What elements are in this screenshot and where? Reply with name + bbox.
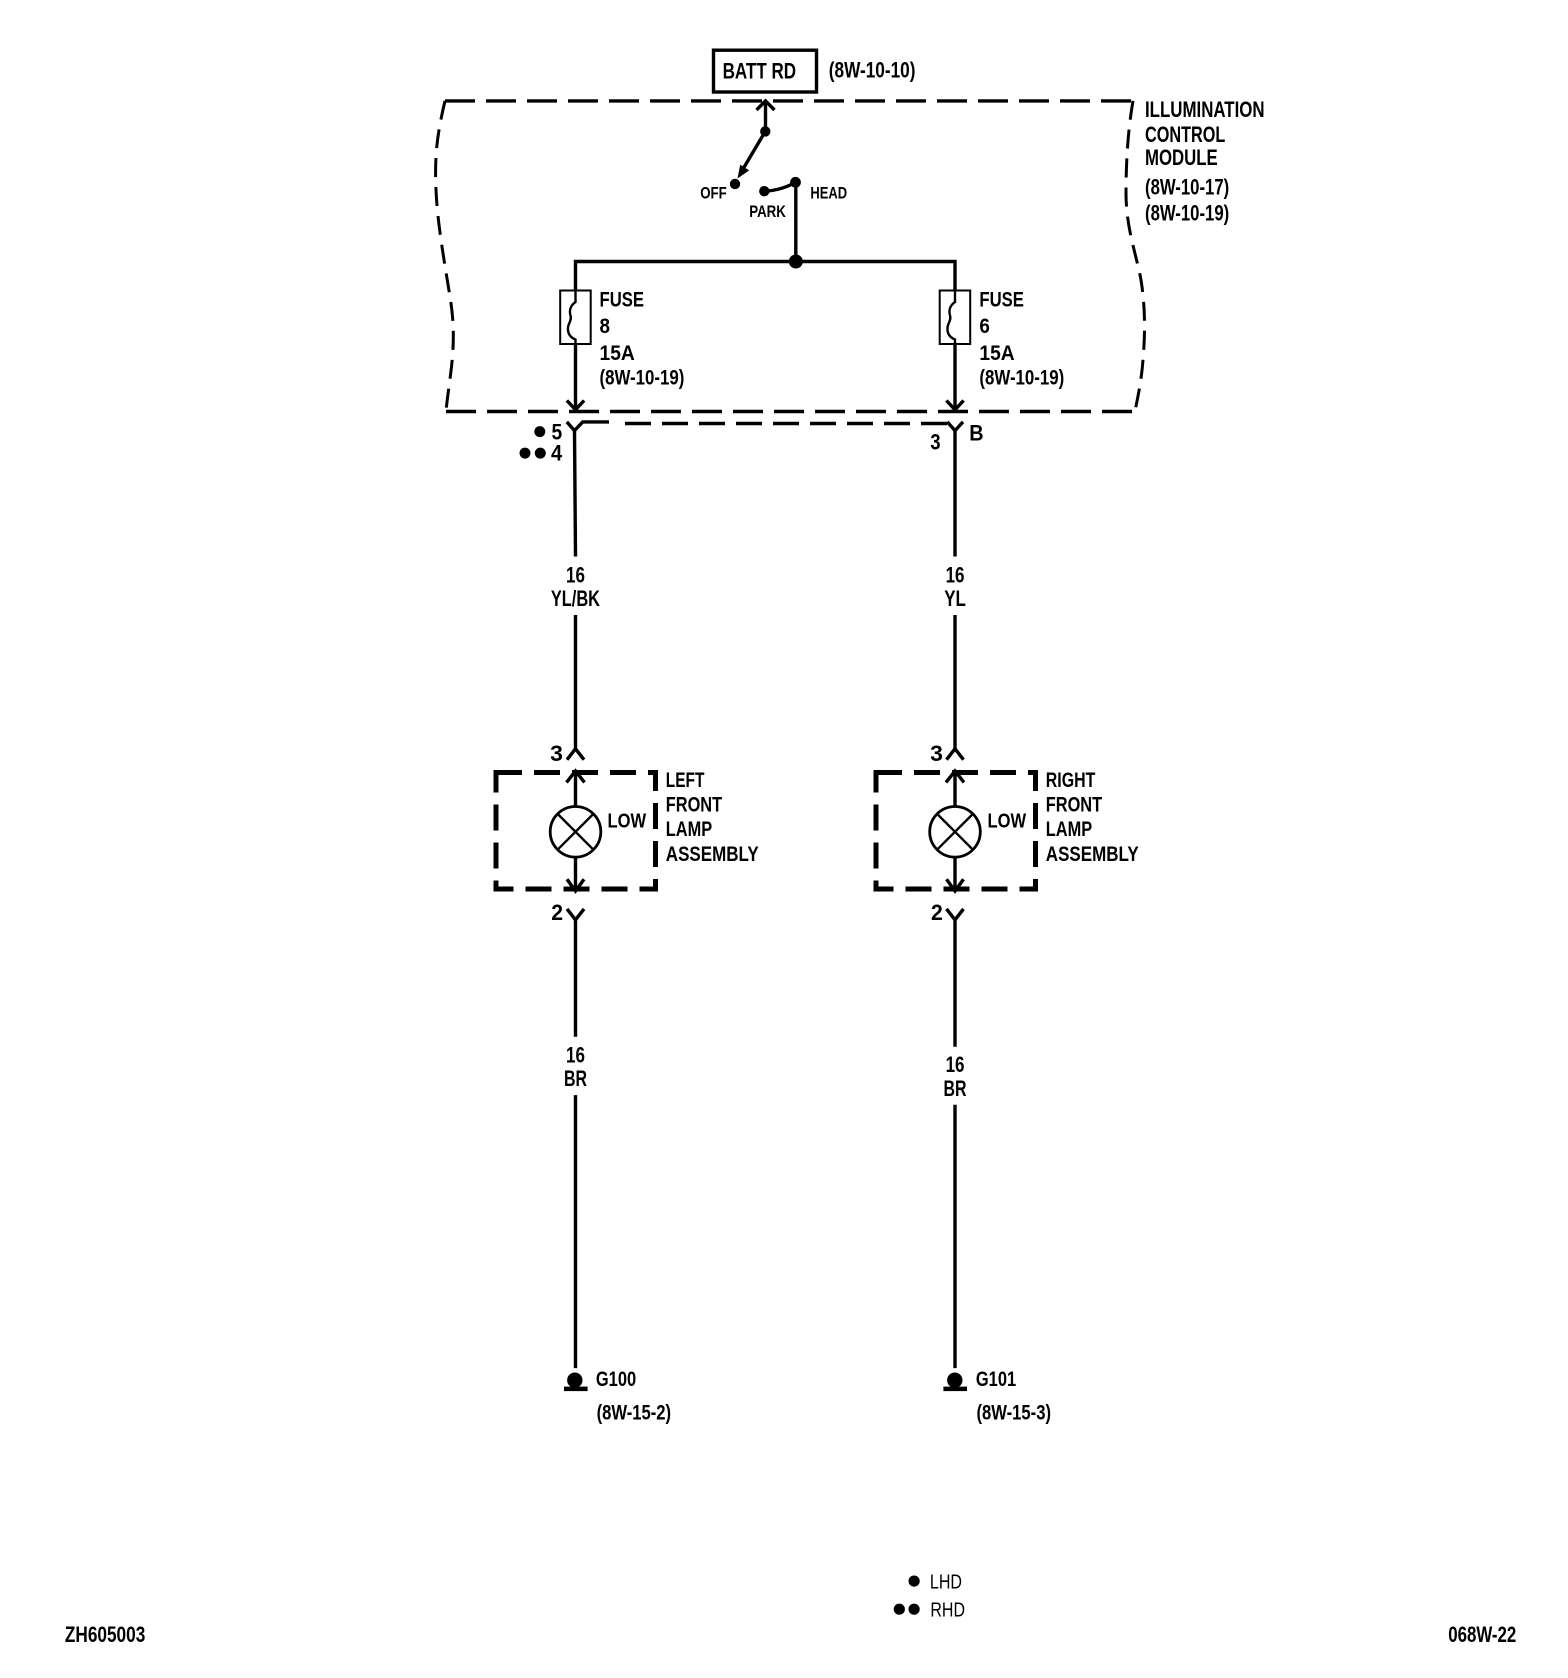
svg-text:YL: YL [944,586,966,611]
svg-text:068W-22: 068W-22 [1448,1622,1516,1647]
svg-text:PARK: PARK [749,202,786,221]
svg-text:BATT RD: BATT RD [723,58,797,83]
svg-text:16: 16 [566,562,585,587]
svg-text:FUSE: FUSE [979,288,1024,311]
svg-text:(8W-10-17): (8W-10-17) [1145,175,1229,200]
svg-text:LOW: LOW [988,811,1027,833]
svg-text:CONTROL: CONTROL [1145,122,1225,147]
svg-text:8: 8 [600,315,611,338]
svg-text:3: 3 [550,741,563,766]
svg-text:LOW: LOW [608,811,647,833]
svg-text:RHD: RHD [930,1600,965,1622]
svg-text:LAMP: LAMP [666,818,712,841]
svg-text:FRONT: FRONT [1046,794,1102,817]
svg-text:HEAD: HEAD [810,184,847,203]
svg-text:G101: G101 [976,1368,1016,1391]
svg-text:(8W-10-19): (8W-10-19) [1145,200,1229,225]
svg-text:LAMP: LAMP [1046,818,1092,841]
svg-text:LHD: LHD [930,1572,962,1594]
svg-text:(8W-10-19): (8W-10-19) [979,366,1064,389]
svg-text:LEFT: LEFT [666,769,705,792]
svg-text:FUSE: FUSE [600,288,645,311]
svg-text:4: 4 [551,440,563,465]
svg-text:ILLUMINATION: ILLUMINATION [1145,97,1265,122]
svg-text:16: 16 [566,1042,585,1067]
svg-text:15A: 15A [600,342,635,365]
svg-text:FRONT: FRONT [666,794,722,817]
svg-text:3: 3 [930,430,940,455]
svg-text:BR: BR [944,1076,967,1101]
svg-text:2: 2 [551,900,563,925]
svg-text:6: 6 [979,315,990,338]
svg-text:ASSEMBLY: ASSEMBLY [1046,843,1139,866]
svg-text:B: B [969,421,983,446]
svg-text:(8W-10-10): (8W-10-10) [829,58,916,83]
svg-text:(8W-15-2): (8W-15-2) [597,1401,672,1424]
svg-text:MODULE: MODULE [1145,145,1218,170]
svg-text:OFF: OFF [700,184,727,203]
svg-text:BR: BR [564,1066,587,1091]
svg-text:2: 2 [931,900,943,925]
svg-text:RIGHT: RIGHT [1046,769,1096,792]
svg-text:16: 16 [946,562,965,587]
svg-text:15A: 15A [979,342,1014,365]
svg-text:(8W-10-19): (8W-10-19) [600,366,685,389]
svg-text:16: 16 [946,1052,965,1077]
svg-text:3: 3 [930,741,943,766]
svg-text:YL/BK: YL/BK [551,586,600,611]
svg-text:ASSEMBLY: ASSEMBLY [666,843,759,866]
svg-text:G100: G100 [596,1368,636,1391]
svg-text:ZH605003: ZH605003 [65,1622,145,1647]
svg-text:(8W-15-3): (8W-15-3) [977,1401,1052,1424]
